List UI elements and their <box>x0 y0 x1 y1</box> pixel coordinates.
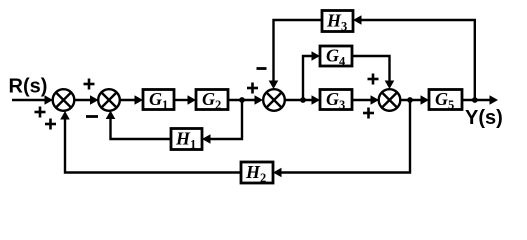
block H1 <box>171 129 202 152</box>
block G1 <box>143 89 174 112</box>
summing junction S4 <box>379 89 401 111</box>
wire: G4 to S4 top <box>352 56 394 89</box>
node D takeoff after G5 <box>472 97 478 103</box>
wire: G1 to G2 <box>174 95 196 105</box>
wire: G2 to S3 <box>228 95 263 105</box>
block G2 <box>196 89 228 112</box>
sign + S1 left input <box>35 107 46 118</box>
wire: H2 to S1 bottom <box>60 111 241 173</box>
sign + S1 bottom input <box>45 119 56 130</box>
wire: node D up and left to H3 <box>353 15 475 100</box>
wire: G3 to S4 <box>352 95 379 105</box>
summing junction S3 <box>263 89 285 111</box>
wire: node C down to H2 <box>273 100 410 177</box>
block G5 <box>429 89 462 112</box>
wire: node A down to H1 <box>202 100 242 144</box>
wire: S4 to G5 <box>400 95 429 105</box>
wire: G5 to output <box>462 95 498 105</box>
block G3 <box>320 89 352 112</box>
block H2 <box>241 162 273 185</box>
node B takeoff after S3 <box>300 97 306 103</box>
summing junction S1 <box>53 89 75 111</box>
sign − S3 top input <box>257 67 267 70</box>
sign + S4 left input <box>363 108 374 119</box>
svg-text:R(s): R(s) <box>9 76 48 98</box>
node C takeoff after S4 <box>407 97 413 103</box>
wire: H1 to S2 bottom <box>106 111 171 140</box>
wire: node B up to G4 <box>303 51 320 100</box>
summing junction S2 <box>98 89 120 111</box>
sign + S4 top input <box>368 74 379 85</box>
block H3 <box>322 11 353 34</box>
node A takeoff after G2 <box>239 97 245 103</box>
block G4 <box>320 46 352 69</box>
wire: H3 to S3 top <box>269 20 322 89</box>
wire: input to summing junction S1 <box>12 95 53 105</box>
sign − S2 bottom input <box>86 115 98 118</box>
wire: S1 to S2 <box>74 95 99 105</box>
svg-text:Y(s): Y(s) <box>465 107 503 129</box>
sign + S2 left input <box>84 79 95 90</box>
wire: S2 to G1 <box>120 95 144 105</box>
sign + S3 left input <box>247 83 258 94</box>
wire: S3 to G3 <box>285 95 321 105</box>
